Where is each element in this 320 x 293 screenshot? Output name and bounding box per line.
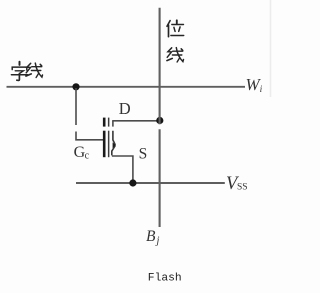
node: source / Vss junction [129, 179, 136, 186]
wire: drain to bit line [112, 120, 160, 122]
label 字线 (word line, hand-drawn hanzi) [11, 62, 42, 81]
wire: source lead (horizontal then down to Vss) [112, 156, 133, 183]
word line Wi (horizontal rail) [7, 86, 246, 88]
substrate arrow tip [113, 142, 116, 148]
bit line Bj (vertical, upper segment) [159, 8, 161, 124]
wire: gate lead L to control gate [76, 132, 103, 140]
transistor: channel lower segment with substrate arrow [112, 131, 116, 156]
label 位线 (bit line, hand-drawn hanzi) [167, 20, 184, 62]
svg-text:D: D [119, 99, 131, 118]
svg-text:i: i [260, 85, 263, 95]
svg-text:B: B [146, 228, 156, 245]
svg-text:S: S [139, 146, 148, 163]
transistor: channel upper segment (drain contact) [112, 121, 114, 127]
bit line Bj (vertical, lower segment) [159, 129, 161, 227]
svg-text:c: c [85, 151, 90, 162]
transistor: control gate bar (thick, two segments) [103, 118, 106, 127]
线 [167, 48, 184, 62]
transistor: floating gate bar (thin, two segments) [108, 118, 110, 127]
node: drain / bit line junction [156, 117, 163, 124]
位 [167, 20, 184, 36]
Vss rail [76, 182, 225, 184]
faint page edge line [270, 0, 272, 97]
wire: gate drop from word line (upper segment) [75, 88, 77, 125]
字 [11, 62, 27, 81]
线 [26, 63, 43, 77]
node: word line / gate wire junction [72, 83, 79, 90]
svg-text:SS: SS [237, 182, 248, 192]
svg-text:Flash: Flash [148, 273, 182, 285]
